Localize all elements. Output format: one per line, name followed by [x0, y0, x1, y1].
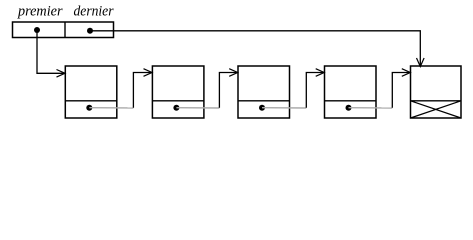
arrow into node5 top	[417, 58, 425, 67]
wire node4 to node5 black	[392, 73, 409, 108]
node2 divider	[152, 100, 204, 102]
wire node1 to node2 gray	[89, 107, 133, 109]
wire node3 to node4 gray	[262, 107, 306, 109]
node3 next bullet	[259, 105, 265, 111]
svg-text:premier: premier	[17, 4, 63, 20]
node2 box	[152, 66, 204, 118]
node3 divider	[238, 100, 290, 102]
wire dernier to node5	[90, 31, 420, 66]
arrow into node2	[144, 69, 153, 77]
node5 divider	[411, 100, 462, 102]
wire node1 to node2 black	[133, 73, 151, 108]
node5 box	[411, 66, 462, 118]
node4 divider	[325, 100, 377, 102]
node1 next bullet	[86, 105, 92, 111]
wire node4 to node5 gray	[349, 107, 393, 109]
node4 box	[325, 66, 377, 118]
arrow into node5	[402, 69, 411, 77]
node1 box	[65, 66, 117, 118]
wire node3 to node4 black	[306, 73, 323, 108]
wire node2 to node3 gray	[176, 107, 219, 109]
premier pointer bullet	[34, 27, 40, 33]
node5 null cross	[411, 101, 462, 118]
arrow into node3	[229, 69, 238, 77]
arrow into node1	[57, 70, 66, 78]
arrow into node4	[316, 69, 325, 77]
dernier pointer bullet	[87, 28, 93, 34]
header box	[13, 22, 114, 38]
node3 box	[238, 66, 290, 118]
node2 next bullet	[173, 105, 179, 111]
svg-text:dernier: dernier	[74, 4, 114, 20]
wire premier to node1	[37, 30, 64, 73]
node4 next bullet	[346, 105, 352, 111]
header divider	[64, 22, 66, 38]
wire node2 to node3 black	[219, 73, 237, 108]
node1 divider	[65, 100, 117, 102]
